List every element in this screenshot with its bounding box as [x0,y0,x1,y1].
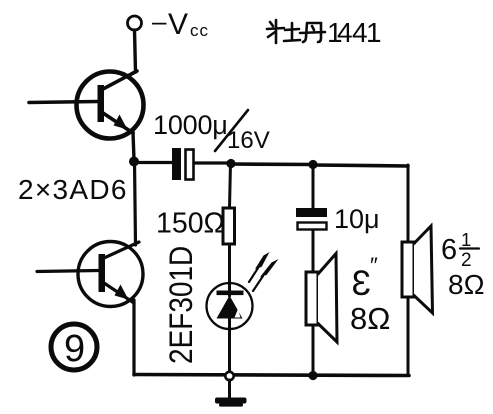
svg-text:8Ω: 8Ω [448,269,485,300]
LED light arrow 2 [253,259,279,291]
wire LED to bottom node D [228,316,231,371]
node D open junction [225,372,233,380]
label 10u [334,204,380,234]
wire LS2 to bottom rail [407,297,410,375]
svg-text:6: 6 [441,234,457,266]
wire Q1 emitter to node A [133,132,134,160]
node C junction dot [308,160,317,169]
wire node A to C1 [134,161,172,164]
svg-text:cc: cc [190,21,209,40]
figure number 9 [51,324,97,370]
svg-text:2: 2 [461,250,472,271]
title 牡丹1441 [267,20,325,43]
wire Q2 emitter to bottom rail [132,300,135,375]
svg-text:–: – [152,6,167,36]
transistor Q2 [37,242,143,307]
丹 [300,23,325,42]
label 2x3AD6 [18,174,128,205]
svg-text:8Ω: 8Ω [350,301,390,336]
wire node B to R1 [230,163,231,208]
wire node D to ground [228,380,231,398]
label 6 1/2 8 ohm [441,229,485,300]
svg-text:1: 1 [366,17,382,48]
wire node B to node C [231,162,313,166]
terminal -Vcc [128,16,142,30]
label 2EF301D (vertical) [164,246,199,364]
wire right side down to speaker LS2 [407,165,410,243]
svg-text:16V: 16V [227,127,270,154]
speaker LS2 6.5in 8ohm [402,226,433,313]
wire node C to top-right corner [313,165,408,166]
label 3 inch [350,253,390,336]
svg-text:V: V [168,8,188,41]
transistor Q1 [29,71,144,139]
capacitor C2 10u [296,208,327,230]
svg-text:2×3AD6: 2×3AD6 [18,174,128,205]
svg-text:4: 4 [337,17,353,48]
speaker LS1 3in 8ohm [306,254,337,343]
LED D1 2EF301D [207,283,253,329]
ground [215,398,247,407]
node E junction dot [308,371,317,380]
wire Vcc to Q1 collector [135,30,136,72]
svg-text:1: 1 [461,229,471,250]
node B junction dot [226,159,235,168]
bottom rail wire [134,375,409,376]
牡 left radical [267,20,284,43]
svg-text:3: 3 [352,264,371,303]
label 150 ohm [156,208,225,240]
svg-text:2EF301D: 2EF301D [164,246,199,364]
label 1000u/16V [153,110,270,154]
svg-text:9: 9 [64,328,85,370]
svg-text:1000μ: 1000μ [153,110,228,140]
牡 right 土 [284,23,300,41]
label -Vcc [152,6,209,41]
svg-text:″: ″ [370,253,378,278]
LED light arrow 1 [249,252,270,282]
wire C1 to node B [194,161,228,164]
wire R1 to LED [228,244,231,296]
wire C2 to speaker LS1 [312,230,315,272]
svg-text:10μ: 10μ [334,204,380,234]
wire node A down to Q2 collector [135,161,136,245]
resistor R1 150 ohm [223,208,235,244]
node A junction dot [129,157,139,167]
svg-text:150Ω: 150Ω [156,208,225,240]
wire node C to C2 [312,165,315,208]
wire LS1 to bottom rail [312,325,315,375]
capacitor C1 1000u/16V [172,148,194,180]
